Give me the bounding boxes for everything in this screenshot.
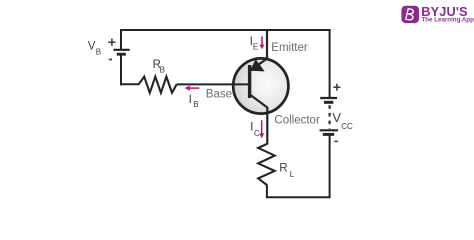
svg-text:I: I — [189, 92, 192, 106]
svg-text:V: V — [88, 41, 96, 53]
battery VB — [113, 50, 129, 54]
wire top — [121, 30, 330, 98]
transistor Q1 body — [233, 58, 288, 113]
label RB — [153, 59, 165, 75]
label VB plus — [108, 39, 115, 46]
svg-text:E: E — [253, 42, 258, 51]
svg-text:The Learning App: The Learning App — [422, 17, 474, 24]
label VCC — [332, 110, 353, 131]
wire VB lower — [120, 54, 122, 85]
label RL — [279, 162, 295, 179]
label VCC minus — [334, 141, 337, 143]
svg-text:B: B — [160, 65, 165, 74]
svg-text:Collector: Collector — [274, 114, 320, 126]
svg-text:B: B — [96, 48, 101, 57]
wire emitter top — [250, 29, 267, 71]
resistor RB — [139, 77, 177, 93]
label IB — [189, 92, 199, 109]
current arrow IB — [185, 86, 200, 91]
wire base right — [177, 83, 249, 85]
battery VCC — [320, 98, 338, 134]
logo BYJUS badge — [401, 6, 419, 23]
svg-text:L: L — [290, 170, 295, 179]
label VCC plus — [333, 84, 340, 91]
svg-text:I: I — [250, 119, 253, 133]
resistor RL — [258, 144, 275, 185]
label VB minus — [109, 59, 112, 61]
current arrow IE — [260, 36, 265, 49]
svg-text:Emitter: Emitter — [271, 42, 308, 54]
svg-text:CC: CC — [341, 122, 353, 131]
transistor Q1 emitter arrow — [250, 59, 265, 71]
wire bottom — [267, 135, 330, 197]
svg-text:R: R — [279, 162, 287, 174]
label VB — [88, 41, 101, 57]
label IE — [250, 34, 259, 52]
wire base left — [120, 83, 139, 85]
svg-text:B: B — [193, 100, 198, 109]
current arrow IC — [259, 120, 264, 138]
svg-text:Base: Base — [206, 89, 232, 101]
svg-text:C: C — [254, 129, 260, 138]
transistor Q1 base bar — [248, 65, 251, 98]
label IC — [250, 119, 260, 137]
svg-text:V: V — [332, 110, 341, 125]
transistor Q1 collector lead — [250, 94, 268, 144]
